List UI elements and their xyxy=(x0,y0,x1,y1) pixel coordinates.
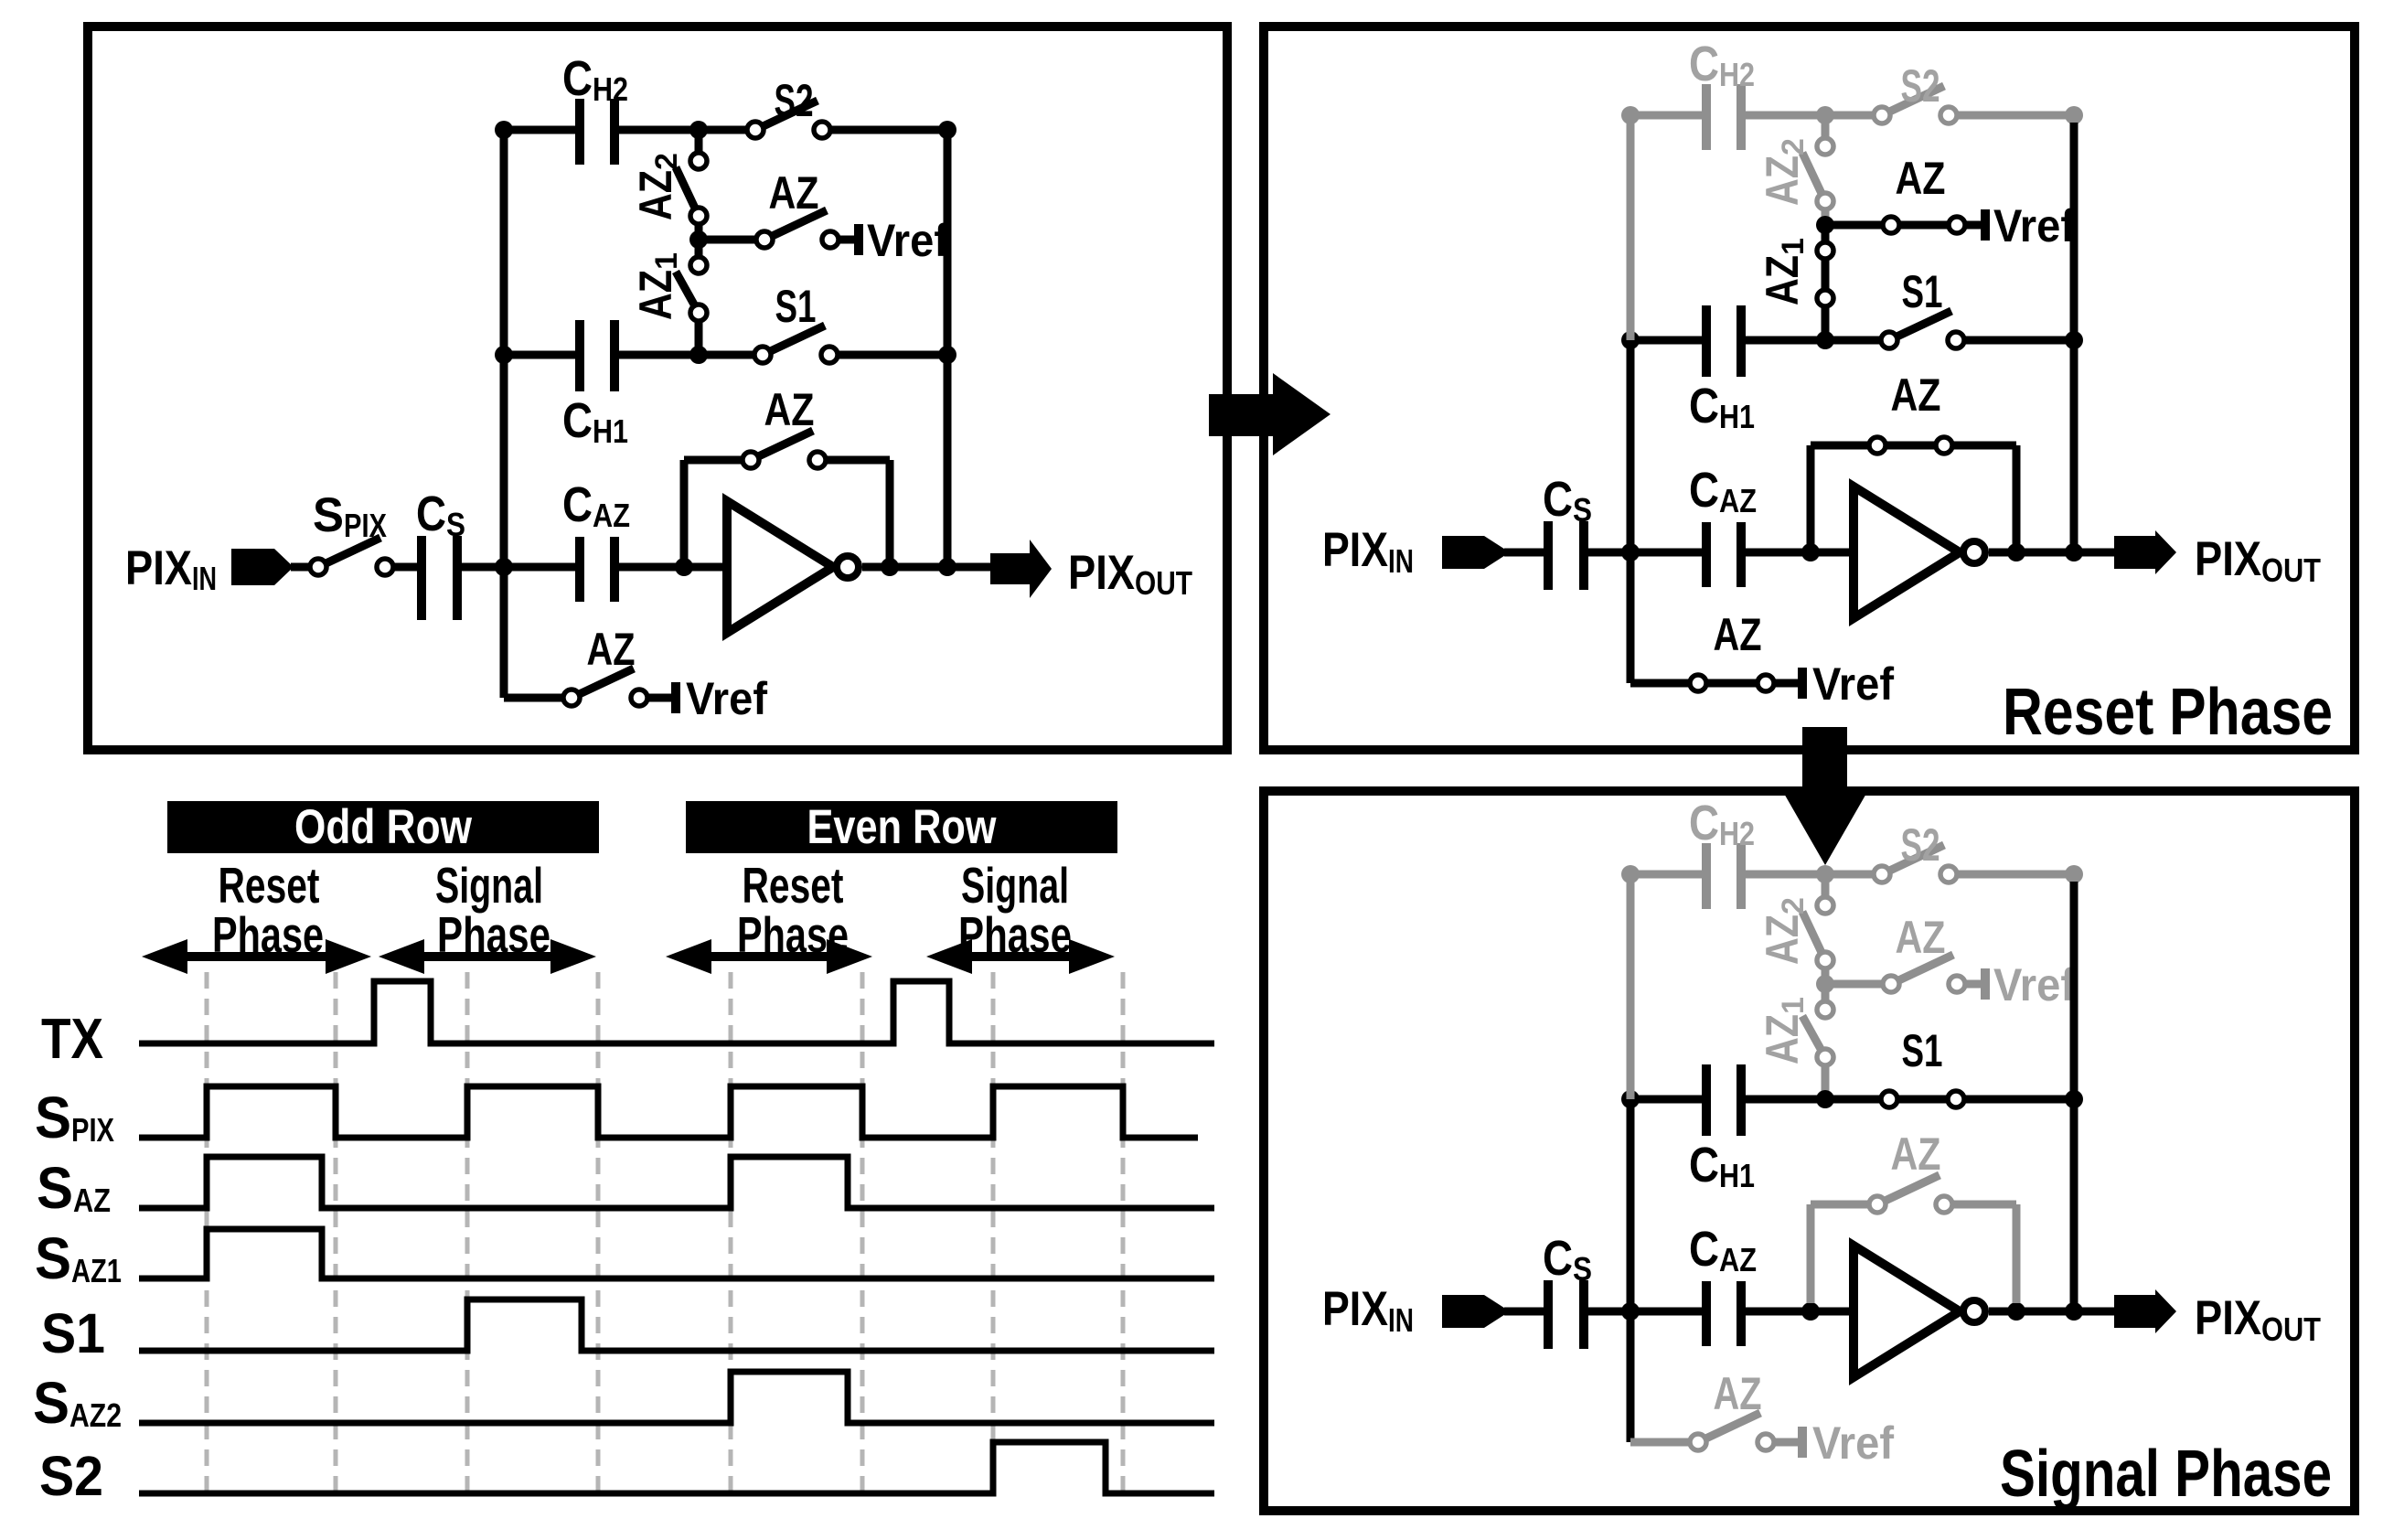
wire feedback top left xyxy=(1811,1201,1877,1209)
wire AZ2 bottom to AZ node xyxy=(1822,210,1830,225)
node S2 row right corner xyxy=(2065,865,2083,883)
wire bottom corner to AZ switch xyxy=(1630,1438,1698,1447)
wire C_H2 row left segment xyxy=(1630,112,1702,120)
svg-text:Signal: Signal xyxy=(435,857,543,914)
capacitor C_S (panel 3) xyxy=(1544,1280,1553,1349)
svg-text:S2: S2 xyxy=(1901,60,1940,112)
svg-text:AZ: AZ xyxy=(587,624,636,675)
switch AZ (feedback) xyxy=(751,431,813,460)
wire node A to C_AZ xyxy=(462,563,575,572)
input terminal arrow PIX_IN (panel 1) xyxy=(231,549,294,585)
banner Even Row xyxy=(686,801,1117,853)
node AZ junction xyxy=(689,230,708,249)
switch S2 xyxy=(1882,86,1944,115)
svg-text:TX: TX xyxy=(41,1008,103,1071)
node C_H1 row left xyxy=(1621,331,1640,349)
wire left vertical (C_H1 row to main) xyxy=(500,355,508,567)
waveform S_AZ xyxy=(139,1157,1214,1208)
switch AZ (feedback) xyxy=(1869,437,1886,454)
wire C_H2 row left segment xyxy=(1630,871,1702,879)
wire stub node to AZ2 top contact xyxy=(1822,874,1830,905)
power Vref (bottom) xyxy=(1798,668,1807,699)
power Vref (bottom) xyxy=(671,682,680,713)
switch AZ2 (vertical) xyxy=(676,167,699,216)
svg-text:Reset: Reset xyxy=(219,857,320,914)
wire left vertical (C_H2 row to C_H1 row) xyxy=(1627,115,1635,340)
switch S2 xyxy=(1882,845,1944,874)
svg-text:AZ: AZ xyxy=(1891,1128,1941,1180)
wire AZ node to AZ1 top contact xyxy=(1822,984,1830,1010)
wire arrow to S_PIX xyxy=(291,563,318,572)
svg-text:Vref: Vref xyxy=(686,673,767,724)
svg-text:AZ: AZ xyxy=(1714,1368,1762,1419)
node S2 row right corner xyxy=(2065,106,2083,124)
svg-text:AZ: AZ xyxy=(1896,912,1946,963)
svg-text:Signal: Signal xyxy=(961,857,1069,914)
svg-text:Vref: Vref xyxy=(1993,200,2075,251)
label AZ2 (rotated) xyxy=(630,153,684,220)
wire node A to C_AZ xyxy=(1588,1308,1702,1316)
wire AZ node to AZ1 top contact xyxy=(695,240,703,265)
capacitor C_AZ xyxy=(575,537,584,602)
svg-text:S2: S2 xyxy=(1901,819,1940,871)
wire node A down xyxy=(1627,1311,1635,1442)
wire left vertical (C_H2 row to C_H1 row) xyxy=(1627,874,1635,1099)
svg-text:S1: S1 xyxy=(1902,266,1943,317)
wire C_H1 to S1 xyxy=(619,351,763,359)
arrow signal phase span (even) xyxy=(963,952,1078,961)
node C_H2 row left corner xyxy=(1621,865,1640,883)
switch AZ (bottom, to Vref) xyxy=(1698,1413,1760,1442)
switch AZ (feedback) xyxy=(1877,1175,1940,1204)
wire right vertical xyxy=(2070,123,2078,552)
wire AZ1 bottom to C_H1 row xyxy=(1822,307,1830,340)
node S1 row right xyxy=(938,346,956,364)
wire bottom AZ to Vref xyxy=(1775,1438,1798,1447)
wire right vertical xyxy=(944,130,952,567)
switch AZ (to Vref) xyxy=(764,210,827,240)
wire bottom corner to AZ switch xyxy=(504,694,572,702)
switch S1 xyxy=(763,326,825,355)
wire feedback top left xyxy=(1811,442,2016,450)
wire left vertical (C_H1 row to main) xyxy=(1627,1099,1635,1311)
wire inverter output xyxy=(1989,549,2117,557)
wire C_H1 row left segment xyxy=(504,351,575,359)
label AZ1 (rotated) xyxy=(1757,238,1811,305)
wire S2 to right vertical xyxy=(831,126,947,134)
node S2 row right corner xyxy=(938,121,956,139)
output terminal arrow PIX_OUT (panel 3) xyxy=(2114,1289,2176,1333)
wire left vertical (C_H1 row to main) xyxy=(1627,340,1635,552)
arrow reset phase span (even) xyxy=(702,952,836,961)
switch AZ1 (vertical) xyxy=(676,272,699,313)
svg-text:AZ: AZ xyxy=(769,167,819,219)
node A (input node) xyxy=(1621,1302,1640,1321)
wire feedback left vertical xyxy=(680,460,689,567)
capacitor C_AZ xyxy=(1702,522,1711,587)
node right vertical on main xyxy=(2065,1302,2083,1321)
wire S2 to right vertical xyxy=(1958,871,2074,879)
svg-text:Even Row: Even Row xyxy=(807,800,998,854)
capacitor C_H2 xyxy=(1702,843,1711,909)
capacitor C_H2 xyxy=(575,99,584,165)
op-amp U1 output bubble xyxy=(1963,541,1985,563)
dashed time gridlines xyxy=(205,972,209,1501)
wire left vertical (C_H2 row to C_H1 row) xyxy=(500,130,508,355)
wire right vertical xyxy=(2070,882,2078,1311)
wire arrow to C_S (panel 3) xyxy=(1504,1308,1544,1316)
node B (inverter input) xyxy=(675,558,693,576)
waveform S_PIX xyxy=(139,1086,1198,1138)
wire feedback right vertical xyxy=(2013,445,2021,552)
wire S_PIX to C_S xyxy=(394,563,417,572)
node B (inverter input) xyxy=(1801,543,1820,561)
wire feedback right vertical xyxy=(2013,1204,2021,1303)
svg-text:Reset Phase: Reset Phase xyxy=(2003,676,2333,749)
svg-text:S1: S1 xyxy=(41,1302,105,1364)
wire node A down xyxy=(500,567,508,698)
svg-text:Vref: Vref xyxy=(1812,658,1894,710)
arrow reset phase span (odd) xyxy=(178,952,335,961)
wire feedback top left xyxy=(684,456,751,465)
label AZ2 (rotated) xyxy=(1757,897,1811,965)
wire node A down xyxy=(1627,552,1635,683)
wire AZ2 bottom to AZ node xyxy=(1822,969,1830,984)
wire S1 to right vertical xyxy=(1965,1096,2074,1104)
wire C_H2 to S2 xyxy=(1746,871,1882,879)
capacitor C_H1 xyxy=(1702,305,1711,377)
svg-text:Vref: Vref xyxy=(867,215,948,266)
wire C_H1 row left segment xyxy=(1630,1096,1702,1104)
svg-text:S1: S1 xyxy=(1902,1025,1943,1076)
wire AZ2 bottom to AZ node xyxy=(695,225,703,240)
waveform TX xyxy=(139,981,1214,1043)
node right vertical on main xyxy=(938,558,956,576)
wire feedback left vertical xyxy=(1807,445,1815,552)
switch AZ2 (vertical) xyxy=(1802,153,1825,201)
waveform S_AZ1 xyxy=(139,1229,1214,1278)
op-amp U1 inverter triangle xyxy=(1854,1246,1960,1377)
capacitor C_S (panel 2) xyxy=(1544,521,1553,590)
node C_H1 right xyxy=(689,346,708,364)
node AZ junction xyxy=(1816,216,1834,234)
wire C_H1 to S1 xyxy=(1746,1096,1889,1104)
arrow panel2 to panel3 xyxy=(1783,727,1867,865)
node AZ junction xyxy=(1816,975,1834,993)
output terminal arrow PIX_OUT (panel 2) xyxy=(2114,530,2176,574)
arrow signal phase span (odd) xyxy=(415,952,560,961)
switch S1 xyxy=(1889,1096,1956,1104)
wire AZ node to AZ switch xyxy=(1825,980,1891,989)
wire AZ node to AZ switch xyxy=(1825,221,1981,230)
wire C_AZ to inverter xyxy=(1746,1308,1854,1316)
wire bottom AZ to Vref xyxy=(648,694,671,702)
node feedback right on main xyxy=(2007,1302,2025,1321)
node S1 row right xyxy=(2065,331,2083,349)
svg-text:AZ: AZ xyxy=(1891,369,1941,421)
wire C_H1 row left segment xyxy=(1630,337,1702,345)
switch AZ (bottom, to Vref) xyxy=(572,668,634,698)
wire AZ node to AZ switch xyxy=(699,236,764,244)
switch S2 xyxy=(755,101,817,130)
wire feedback right vertical xyxy=(886,460,894,567)
label AZ1 (rotated) xyxy=(1757,997,1811,1064)
wire C_AZ to inverter xyxy=(619,563,727,572)
op-amp U1 output bubble xyxy=(1963,1300,1985,1322)
switch AZ1 (vertical) xyxy=(1802,1016,1825,1057)
switch AZ2 (vertical) xyxy=(1802,912,1825,960)
node A (input node) xyxy=(1621,543,1640,561)
wire S2 to right vertical xyxy=(1958,112,2074,120)
node S1 row right xyxy=(2065,1090,2083,1108)
node C_H2 right xyxy=(1816,865,1834,883)
svg-text:AZ: AZ xyxy=(1896,153,1946,204)
switch S1 xyxy=(1889,311,1951,340)
power Vref (upper) xyxy=(854,224,863,255)
svg-text:AZ: AZ xyxy=(764,384,815,435)
node C_H1 right xyxy=(1816,331,1834,349)
switch AZ (bottom, to Vref) xyxy=(1698,679,1766,688)
waveform S2 xyxy=(139,1442,1214,1493)
output terminal arrow PIX_OUT (panel 1) xyxy=(990,540,1052,598)
wire C_H2 to S2 xyxy=(619,126,755,134)
switch AZ (to Vref) xyxy=(1883,217,1899,233)
wire inverter output xyxy=(862,563,990,572)
svg-text:S2: S2 xyxy=(39,1445,103,1507)
node A (input node) xyxy=(495,558,513,576)
wire C_AZ to inverter xyxy=(1746,549,1854,557)
label AZ2 (rotated) xyxy=(1757,138,1811,206)
power Vref (upper) xyxy=(1981,209,1990,241)
node C_H2 row left corner xyxy=(495,121,513,139)
wire bottom corner to AZ switch xyxy=(1630,679,1698,688)
panel 3 border (Signal Phase) xyxy=(1264,791,2355,1511)
node C_H1 row left xyxy=(495,346,513,364)
svg-text:AZ: AZ xyxy=(1714,609,1762,660)
switch AZ (to Vref) xyxy=(1891,955,1953,984)
input terminal arrow PIX_IN (panel 2) xyxy=(1442,536,1510,569)
node B (inverter input) xyxy=(1801,1302,1820,1321)
node C_H1 row left xyxy=(1621,1090,1640,1108)
op-amp U1 inverter triangle xyxy=(727,501,833,633)
node C_H2 right xyxy=(689,121,708,139)
svg-text:Vref: Vref xyxy=(1993,959,2075,1011)
svg-text:Signal Phase: Signal Phase xyxy=(2000,1438,2332,1511)
capacitor C_H1 xyxy=(1702,1064,1711,1136)
wire C_H2 row left segment xyxy=(504,126,575,134)
arrow panel1 to panel2 xyxy=(1209,373,1330,455)
wire stub node to AZ2 top contact xyxy=(1822,115,1830,146)
wire C_H1 to S1 xyxy=(1746,337,1889,345)
label AZ1 (rotated) xyxy=(630,252,684,320)
wire feedback left vertical xyxy=(1807,1204,1815,1303)
wire AZ1 bottom to C_H1 row xyxy=(1822,1066,1830,1099)
wire inverter output xyxy=(1989,1308,2117,1316)
wire AZ node to AZ1 top contact xyxy=(1822,225,1830,251)
switch S_PIX xyxy=(318,538,380,567)
power Vref (upper) xyxy=(1981,968,1990,1000)
wire stub node to AZ2 top contact xyxy=(695,130,703,161)
op-amp U1 output bubble xyxy=(837,556,859,578)
waveform S_AZ2 xyxy=(139,1372,1214,1423)
node feedback right on main xyxy=(2007,543,2025,561)
panel 1 border (full circuit) xyxy=(88,27,1227,750)
capacitor C_AZ xyxy=(1702,1281,1711,1346)
banner Odd Row xyxy=(167,801,599,853)
svg-text:S1: S1 xyxy=(775,281,817,332)
capacitor C_H2 xyxy=(1702,84,1711,150)
svg-text:Odd Row: Odd Row xyxy=(294,800,473,854)
svg-text:Reset: Reset xyxy=(743,857,844,914)
node C_H1 right xyxy=(1816,1090,1834,1108)
waveform S1 xyxy=(139,1299,1214,1351)
panel 2 border (Reset Phase) xyxy=(1264,27,2355,750)
capacitor C_H1 xyxy=(575,320,584,391)
node feedback right on main xyxy=(881,558,899,576)
node right vertical on main xyxy=(2065,543,2083,561)
wire S1 to right vertical xyxy=(1965,337,2074,345)
wire arrow to C_S (panel 2) xyxy=(1504,549,1544,557)
capacitor C_S xyxy=(417,536,426,620)
node C_H2 right xyxy=(1816,106,1834,124)
wire C_H2 to S2 xyxy=(1746,112,1882,120)
wire S1 to right vertical xyxy=(839,351,947,359)
wire AZ1 bottom to C_H1 row xyxy=(695,322,703,355)
switch AZ1 (vertical) xyxy=(1822,251,1830,298)
input terminal arrow PIX_IN (panel 3) xyxy=(1442,1295,1510,1328)
wire bottom AZ to Vref xyxy=(1775,679,1798,688)
op-amp U1 inverter triangle xyxy=(1854,487,1960,618)
node C_H2 row left corner xyxy=(1621,106,1640,124)
wire node A to C_AZ xyxy=(1588,549,1702,557)
svg-text:Vref: Vref xyxy=(1812,1417,1894,1469)
power Vref (bottom) xyxy=(1798,1427,1807,1458)
svg-text:S2: S2 xyxy=(775,75,814,126)
